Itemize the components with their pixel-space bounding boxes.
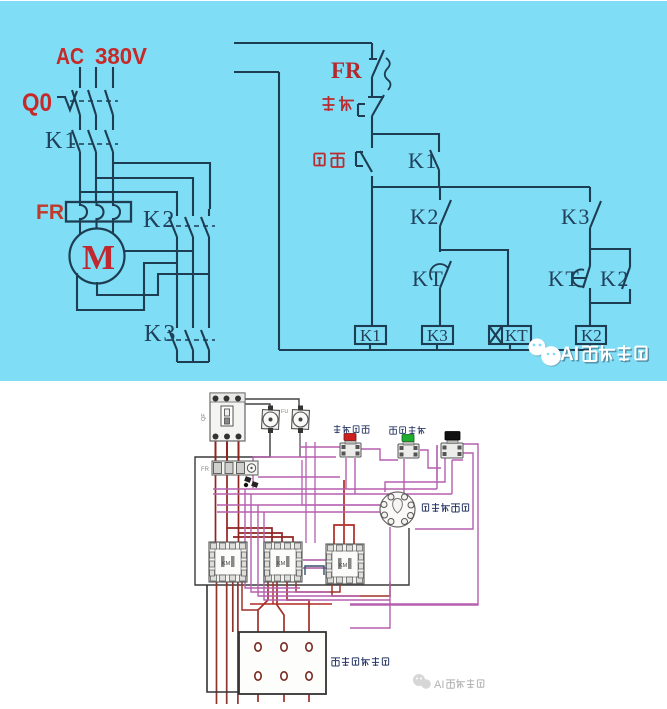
magenta socket bottom drops	[350, 527, 390, 628]
start button	[398, 435, 419, 459]
K3 branch contact	[590, 187, 601, 266]
wire risers right of fuse2	[306, 442, 315, 543]
wire FR to KM1 t1	[215, 475, 217, 542]
contactor KM3	[326, 544, 364, 584]
svg-text:QF: QF	[201, 413, 207, 421]
contactor K1 linkage	[70, 143, 118, 145]
wire phase2 to K2c2	[96, 178, 193, 209]
control left rail	[278, 72, 280, 350]
contactor K1 blades	[72, 130, 113, 152]
magenta stop to start	[361, 449, 398, 460]
coil KT X box	[489, 326, 502, 344]
svg-text:AC: AC	[56, 43, 84, 69]
control top line 2	[234, 71, 279, 73]
fuse FU1	[262, 406, 280, 434]
coil K2 box	[576, 326, 606, 344]
svg-text:M: M	[82, 238, 115, 277]
svg-text:FU: FU	[281, 409, 288, 415]
coil K3 box	[422, 326, 453, 344]
KT NO delayed contact	[440, 261, 451, 326]
magenta nest verticals left	[245, 489, 390, 600]
contact K1 seal	[430, 150, 439, 187]
watermark2 text	[434, 679, 484, 691]
branch to K1 seal	[372, 134, 439, 152]
wire FR to KM1 t3 + branch KM2	[239, 475, 283, 545]
wire QF top to fuse2	[240, 399, 299, 408]
wire motor box bottom leads	[258, 681, 309, 702]
wire KM2 bottoms to motor box	[258, 582, 268, 647]
svg-text:380V: 380V	[95, 43, 148, 69]
svg-text:KM: KM	[222, 561, 231, 567]
wire fuse2 down	[299, 429, 301, 457]
svg-text:AI: AI	[434, 679, 444, 691]
motor wrap wire W2	[97, 274, 209, 295]
magenta nest horizontals	[213, 445, 463, 512]
FR heater loops	[80, 203, 87, 222]
wire fuse2 riser to socket	[302, 460, 380, 505]
coil KT box	[489, 326, 531, 344]
wire QF to fuse1	[245, 404, 270, 408]
contactor KM1	[209, 542, 247, 582]
wire KM2/KM3 bottom reds to right	[296, 582, 340, 592]
magenta button feed 2	[253, 457, 336, 488]
svg-text:K2: K2	[600, 266, 630, 291]
fuse FU2	[281, 406, 309, 434]
K2 parallel contact branch	[590, 249, 630, 303]
phase line L3	[112, 67, 114, 203]
K3 star bar	[177, 361, 209, 363]
wire QF bottom to FR (3 red)	[215, 441, 217, 461]
FR aux contact bits	[244, 476, 251, 483]
coil K1 box	[355, 326, 386, 344]
thermal relay FR unit	[201, 461, 259, 488]
watermark2 wechat icon	[413, 674, 431, 689]
contactor K3 contacts	[169, 321, 177, 362]
svg-text:K2: K2	[410, 204, 440, 229]
breaker Q0 blades	[72, 90, 113, 115]
motor wrap wire W3	[77, 263, 177, 310]
wire phase1 to K2c1	[80, 192, 177, 209]
contactor KM2	[264, 542, 302, 582]
svg-text:K1: K1	[408, 148, 438, 173]
phase line L2	[95, 67, 97, 203]
magenta motor box top line	[350, 603, 478, 605]
control bottom rail	[279, 349, 590, 351]
contactor K2 contacts	[169, 209, 177, 321]
FR NC contact on rail	[369, 43, 384, 97]
motor M circle	[70, 229, 125, 284]
KT delay semicircle	[573, 270, 587, 287]
KT delay hook	[430, 264, 448, 280]
magenta button drops	[346, 458, 404, 505]
svg-text:KT: KT	[412, 266, 444, 291]
phase line L1	[79, 67, 81, 203]
svg-text:FR: FR	[331, 58, 362, 83]
wire black to motor box	[207, 585, 239, 692]
wire FR to KM1 t2 + branch KM2	[227, 475, 272, 545]
breaker Q0 handle	[57, 91, 77, 110]
magenta start to button3	[420, 450, 441, 468]
magenta button feed 1	[300, 446, 340, 447]
navy KM2-KM3 u-link	[305, 566, 324, 575]
rail to K1 coil	[371, 187, 373, 326]
svg-text:K1: K1	[360, 326, 381, 345]
cyan background panel	[0, 1, 667, 381]
svg-text:AI: AI	[560, 344, 579, 365]
coil bottom stubs	[370, 344, 590, 350]
start button NO	[360, 151, 372, 172]
magenta KM2-KM3 link	[303, 560, 326, 568]
wire KM1 bottom to bottom edge (3)	[216, 582, 218, 704]
svg-text:FR: FR	[201, 467, 210, 473]
wire KM3 top feeds	[334, 480, 354, 544]
svg-text:K2: K2	[581, 326, 602, 345]
breaker Q0 linkage	[70, 100, 118, 102]
start button actuator	[356, 152, 363, 166]
K2 branch contact	[440, 187, 451, 252]
time relay socket	[380, 492, 415, 527]
thermal relay FR box	[66, 202, 131, 222]
wire fuse1 to common rail	[195, 429, 409, 585]
label start button (CJK)	[389, 426, 426, 434]
svg-text:KT: KT	[505, 326, 528, 345]
contactor K3 linkage	[167, 339, 215, 341]
label stop (CJK)	[323, 96, 355, 111]
svg-text:K3: K3	[144, 321, 177, 347]
stop button	[340, 434, 361, 458]
svg-text:FR: FR	[36, 201, 64, 224]
control top line 1	[234, 42, 372, 44]
svg-text:K3: K3	[561, 204, 591, 229]
contactor K2 linkage	[167, 225, 215, 227]
label motor terminal box (CJK)	[331, 657, 389, 666]
magenta long vertical from start area	[436, 445, 438, 480]
magenta right loop to time relay	[415, 453, 473, 529]
magenta time relay L	[385, 455, 445, 492]
wires FR to motor	[80, 222, 113, 236]
motor wrap wire W1	[123, 250, 193, 252]
svg-text:K1: K1	[45, 128, 78, 154]
FR thermal hook	[385, 58, 391, 90]
svg-text:Q0: Q0	[22, 89, 52, 117]
watermark wechat icon	[529, 339, 562, 367]
label stop button (CJK)	[334, 425, 370, 433]
stop button NC	[368, 95, 384, 187]
breaker QF	[201, 393, 245, 441]
black button	[441, 432, 463, 459]
branch to KT coil	[440, 250, 508, 326]
wire phase3 to K2c3	[113, 163, 210, 209]
svg-text:K3: K3	[427, 326, 448, 345]
red jumper	[242, 582, 258, 610]
stop button actuator	[358, 104, 365, 116]
KT delayed NC contact	[583, 266, 590, 326]
label time relay (CJK)	[422, 503, 468, 512]
label start (CJK)	[314, 154, 345, 168]
svg-text:K2: K2	[143, 207, 176, 233]
motor terminal box	[239, 632, 326, 694]
magenta right big loop	[350, 444, 478, 605]
wire branch to KM2 t3	[233, 537, 293, 545]
watermark text AI dianqi lianmeng	[560, 344, 648, 367]
wire KM1 extra lead	[232, 582, 234, 632]
svg-text:KT: KT	[548, 266, 580, 291]
junction line	[372, 186, 590, 188]
